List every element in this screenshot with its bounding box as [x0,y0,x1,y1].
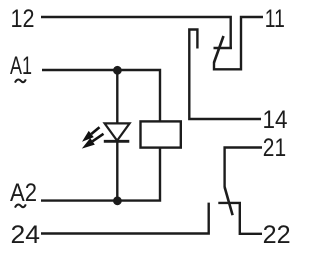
node junction A1/LED [113,66,122,75]
svg-text:A1: A1 [10,53,32,80]
contact armature 11-12 (closed) [214,36,224,63]
wire LED branch [116,70,118,201]
svg-text:22: 22 [263,222,291,249]
wire 11 common with armature pivot [214,17,263,69]
svg-text:14: 14 [263,107,288,134]
wire 14 with NO hook contact [189,30,261,120]
svg-text:21: 21 [263,135,286,162]
AC tilde under A1 [15,79,26,82]
wire 22 with NC stub [218,203,262,234]
svg-text:12: 12 [11,6,35,33]
svg-text:11: 11 [265,6,285,33]
contact armature 21-22 (closed) [225,187,233,215]
svg-text:24: 24 [11,222,41,249]
AC tilde under A2 [15,204,26,207]
LED emission arrow lower [93,134,104,142]
svg-text:A2: A2 [10,180,37,207]
wire coil bottom to A2 [41,148,160,201]
wire A1 line to coil [42,70,160,121]
LED D1 cathode bar [104,140,130,143]
wire 24 with NO open end [41,203,209,234]
node junction A2/LED [113,196,122,205]
LED emission arrow upper [91,127,99,134]
wire 21 common with armature pivot [225,148,262,188]
relay coil K1 [141,121,181,147]
LED D1 triangle [105,123,130,140]
wire 12 line with NC stub [41,17,232,48]
